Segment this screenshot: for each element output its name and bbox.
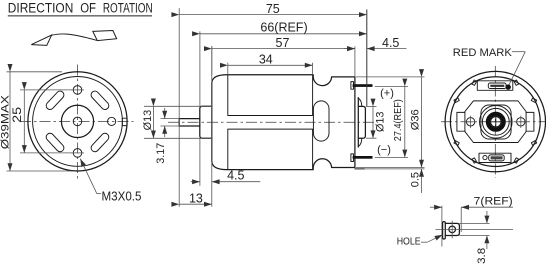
inner rim circle <box>450 77 540 167</box>
rim tab 29 up-left <box>454 98 459 103</box>
side tab right <box>526 112 534 131</box>
terminal slot top <box>488 83 506 89</box>
center boss circle <box>61 105 93 137</box>
svg-text:(−): (−) <box>377 144 391 156</box>
rim notch right <box>121 118 123 125</box>
svg-text:3.8: 3.8 <box>476 248 488 264</box>
leader M3X0.5 <box>80 159 141 204</box>
brush cap top <box>477 81 513 91</box>
shaft <box>179 119 200 126</box>
terminal (-) crimp <box>351 154 354 162</box>
dimension 13 <box>179 46 212 207</box>
can flat panel lower <box>228 129 313 170</box>
dimension 34 <box>228 52 313 75</box>
screw hole left <box>466 118 474 126</box>
centerline horizontal <box>20 120 134 122</box>
screw hole right <box>517 118 525 126</box>
hole centerline vertical <box>451 221 453 239</box>
dimension 0.5 <box>365 169 425 193</box>
svg-text:75: 75 <box>266 2 280 16</box>
vent slot lower-right <box>91 133 109 151</box>
dimension D39MAX <box>0 72 72 171</box>
svg-text:66(REF): 66(REF) <box>260 20 307 34</box>
shaft hole <box>491 117 501 127</box>
svg-text:M3X0.5: M3X0.5 <box>102 189 142 203</box>
rounded square boss <box>481 105 511 139</box>
red mark dot <box>506 84 511 89</box>
rotation arrow tail (open quadrilateral) <box>93 31 117 41</box>
side tab left <box>457 112 465 131</box>
svg-text:Ø13: Ø13 <box>142 110 154 131</box>
terminal top (end-on) <box>490 85 504 87</box>
svg-text:OF: OF <box>80 1 96 16</box>
centerline vertical <box>77 65 79 179</box>
hole in bottom cap <box>483 156 487 160</box>
dimension 3.8 <box>459 222 489 224</box>
vent slot lower-left <box>46 133 64 151</box>
cap fillet bottom <box>358 138 362 146</box>
bracket flange <box>443 222 446 239</box>
screw hole bottom <box>73 149 82 158</box>
dimension D36 <box>356 77 425 168</box>
label RED MARK with leader <box>453 47 526 85</box>
cap lip bottom <box>355 168 365 170</box>
dimension 27.4(REF) <box>375 86 408 157</box>
bracket tab <box>445 223 459 235</box>
bearing black annulus <box>488 114 504 130</box>
can outer circle <box>28 72 127 171</box>
can flat panel upper <box>228 75 313 116</box>
terminal (-) bar <box>353 156 373 159</box>
svg-text:ROTATION: ROTATION <box>103 1 153 16</box>
svg-text:Ø13: Ø13 <box>375 112 387 133</box>
terminal (+) crimp <box>351 82 354 90</box>
rear bearing boss <box>358 106 365 138</box>
svg-text:13: 13 <box>189 192 203 206</box>
svg-text:0.5: 0.5 <box>409 172 421 187</box>
front bearing boss <box>200 106 212 138</box>
vent slot upper-left <box>46 91 64 109</box>
hole <box>449 226 456 233</box>
rim tab 62 up-left <box>472 80 477 85</box>
dimension 25 <box>10 90 72 153</box>
shaft center hole <box>73 117 82 126</box>
svg-text:4.5: 4.5 <box>382 36 399 50</box>
small hole right <box>108 117 116 125</box>
dimension D13 left <box>142 106 212 138</box>
terminal bottom (end-on) <box>491 156 503 159</box>
vent slot upper-right <box>91 91 109 109</box>
svg-text:DIRECTION: DIRECTION <box>8 1 74 16</box>
title underline <box>8 15 152 17</box>
terminal slot bottom <box>489 155 505 161</box>
bearing ring <box>482 108 509 135</box>
dimension 66(REF) <box>200 20 367 186</box>
rotation arrow arc <box>51 34 97 40</box>
svg-text:34: 34 <box>259 52 273 66</box>
extension line vertical <box>441 206 443 247</box>
hole centerline horizontal <box>436 228 514 230</box>
rear vent slot (vertical stadium) <box>313 101 329 141</box>
svg-text:7(REF): 7(REF) <box>474 196 513 208</box>
brush cap bottom <box>479 153 511 162</box>
cap fillet top <box>358 98 362 106</box>
bearing ring outer <box>480 106 513 139</box>
shaft hole crosshair <box>489 121 502 123</box>
dimension D13 right <box>366 106 387 138</box>
endbell cap face <box>357 98 359 147</box>
octagonal housing band <box>465 101 526 143</box>
outer circle <box>445 71 545 171</box>
rim tab 29 up-right <box>531 98 536 103</box>
svg-text:3.17: 3.17 <box>155 143 167 164</box>
svg-text:27.4(REF): 27.4(REF) <box>392 99 404 141</box>
dimension 75 <box>179 2 367 207</box>
svg-text:RED MARK: RED MARK <box>453 47 513 59</box>
rim tab 29 down-right <box>531 141 536 146</box>
centerline horizontal <box>441 121 546 123</box>
rim tab 62 down-right <box>514 158 519 163</box>
can inner rim circle <box>33 77 123 167</box>
svg-text:Ø36: Ø36 <box>409 109 421 130</box>
svg-text:4.5: 4.5 <box>227 169 244 183</box>
rotation arrowhead (open triangle) <box>31 35 51 45</box>
dimension 4.5 bottom <box>191 169 260 183</box>
rim tab 29 down-left <box>454 141 459 146</box>
dimension 3.17 <box>155 108 179 164</box>
terminal (+) bar <box>353 84 373 87</box>
motor can outline <box>212 75 355 170</box>
svg-text:57: 57 <box>276 36 290 50</box>
rim tab 62 down-left <box>472 158 477 163</box>
svg-text:(+): (+) <box>380 87 394 99</box>
svg-text:HOLE: HOLE <box>397 235 421 247</box>
dimension 57 <box>212 36 355 77</box>
rim tab 62 up-right <box>514 80 519 85</box>
svg-text:25: 25 <box>10 107 24 123</box>
dimension 4.5 top <box>344 36 407 50</box>
centerline vertical <box>494 66 496 178</box>
screw hole top <box>73 86 82 95</box>
centerline <box>168 121 374 123</box>
dimension 7(REF) <box>430 206 442 208</box>
